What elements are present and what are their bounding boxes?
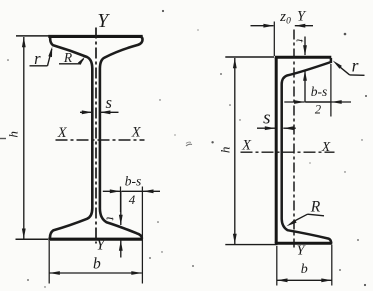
X axis (channel, horizontal dash-dot): [241, 151, 335, 153]
label r (channel flange tip radius): [333, 61, 342, 69]
svg-text:R: R: [310, 199, 321, 216]
channel top flange edge: [275, 56, 332, 59]
Y axis (I-beam, vertical dash-dot): [95, 28, 97, 244]
channel web outer face: [275, 57, 278, 243]
I-beam bottom flange edge: [48, 238, 142, 241]
dimension b-s/2 (channel): [284, 101, 304, 103]
I-beam left outline: [50, 38, 92, 239]
dimension b (I-beam): [48, 241, 50, 284]
dimension h (I-beam): [16, 35, 60, 37]
svg-text:s: s: [105, 93, 111, 112]
svg-text:X: X: [241, 138, 252, 154]
svg-text:r: r: [352, 55, 359, 75]
svg-text:2: 2: [315, 102, 321, 116]
svg-text:s: s: [263, 108, 270, 129]
I-beam right outline: [100, 37, 143, 239]
dimension h (channel): [225, 56, 274, 58]
svg-text:b-s: b-s: [311, 84, 328, 99]
svg-text:b-s: b-s: [125, 173, 142, 188]
svg-text:4: 4: [129, 192, 136, 207]
svg-text:X: X: [321, 139, 331, 154]
dimension z0 (channel centroid offset): [273, 22, 275, 57]
dimension t (I-beam flange thickness): [120, 191, 122, 225]
channel bottom flange edge: [275, 242, 333, 245]
svg-text:0: 0: [286, 17, 291, 27]
svg-text:h: h: [6, 131, 21, 138]
svg-text:b: b: [93, 255, 101, 272]
svg-text:t: t: [104, 217, 118, 221]
svg-text:X: X: [57, 125, 68, 141]
X axis (I-beam, horizontal dash-dot): [56, 139, 145, 141]
I-beam top flange edge: [48, 35, 142, 38]
svg-text:h: h: [217, 147, 232, 154]
svg-text:Y: Y: [96, 237, 106, 254]
svg-text:b: b: [301, 262, 308, 277]
dimension b (channel): [276, 246, 278, 286]
Y axis (channel, vertical dash-dot): [293, 30, 295, 248]
dimension b-s/4 (I-beam): [103, 190, 121, 192]
channel inner outline: [282, 58, 332, 243]
scan noise specks: [186, 144, 192, 146]
svg-text:z: z: [279, 9, 286, 25]
svg-text:R: R: [63, 50, 73, 65]
svg-text:X: X: [131, 124, 142, 140]
